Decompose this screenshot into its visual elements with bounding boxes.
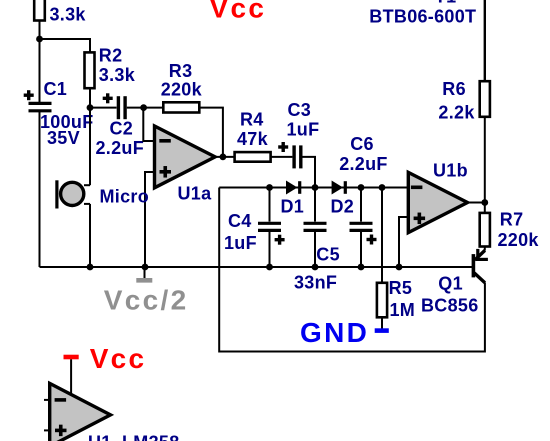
svg-text:C5: C5 — [316, 245, 340, 265]
svg-text:R4: R4 — [240, 110, 264, 130]
capacitor C3 — [294, 145, 301, 168]
op-amp U1 (LM358 legend) — [44, 359, 111, 441]
svg-text:U1: U1 — [88, 432, 112, 441]
node C3/D1/D2 junction — [312, 184, 319, 191]
svg-text:D2: D2 — [331, 197, 355, 217]
wire R2 bottom to C2 node — [89, 88, 91, 107]
svg-text:2.2uF: 2.2uF — [96, 138, 145, 158]
svg-text:U1a: U1a — [178, 183, 213, 203]
wire C2 to R3 node — [127, 107, 164, 109]
wire R3 right feedback down — [199, 108, 223, 157]
node C4 bottom junction — [266, 264, 273, 271]
resistor R7 — [480, 213, 490, 247]
wire U1b output — [468, 202, 485, 204]
power symbol Vcc (red bar) — [64, 355, 79, 360]
svg-text:Vcc: Vcc — [90, 343, 147, 374]
node R3 left junction — [140, 104, 147, 111]
svg-text:1uF: 1uF — [287, 120, 320, 140]
diode D2 — [332, 181, 346, 195]
node C6 bottom junction — [358, 264, 365, 271]
resistor R3 — [163, 102, 199, 112]
svg-text:BTB06-600T: BTB06-600T — [369, 7, 476, 27]
wire C3 down to detector rail — [303, 157, 316, 188]
resistor R4 — [235, 152, 271, 162]
node Vcc/2 junction — [142, 264, 149, 271]
plus sign C2 — [103, 93, 113, 103]
svg-text:220k: 220k — [161, 80, 203, 100]
resistor R2 — [85, 52, 95, 88]
svg-text:R3: R3 — [169, 61, 193, 81]
svg-text:47k: 47k — [237, 129, 269, 149]
diode D1 — [286, 181, 300, 195]
svg-text:R7: R7 — [500, 210, 524, 230]
wire left rail upper — [39, 20, 41, 103]
svg-text:R2: R2 — [99, 46, 123, 66]
node R5 top junction — [379, 184, 386, 191]
svg-text:C4: C4 — [228, 211, 252, 231]
ground symbol GND bar — [375, 328, 389, 333]
svg-text:3.3k: 3.3k — [50, 4, 87, 24]
plus sign C4 — [275, 235, 285, 245]
node mic bottom junction — [87, 264, 94, 271]
node C2 left junction — [87, 104, 94, 111]
svg-text:R5: R5 — [389, 278, 413, 298]
transistor Q1 — [473, 247, 488, 283]
wire right rail top — [484, 0, 486, 81]
svg-text:1uF: 1uF — [224, 233, 257, 253]
resistor R5 — [377, 188, 387, 330]
node U1b output junction — [481, 199, 488, 206]
svg-text:Vcc: Vcc — [210, 0, 267, 24]
svg-text:Q1: Q1 — [438, 274, 463, 294]
svg-text:C2: C2 — [110, 119, 134, 139]
svg-text:R6: R6 — [442, 79, 466, 99]
wire R4 to C3 — [271, 156, 293, 158]
capacitor C1 — [29, 103, 52, 110]
resistor R6 — [480, 81, 490, 117]
svg-text:Vcc/2: Vcc/2 — [104, 285, 189, 316]
wire node to C2 — [90, 107, 117, 109]
node C6 top junction — [358, 184, 365, 191]
capacitor C6 — [350, 188, 373, 268]
node U1b plus junction — [396, 264, 403, 271]
svg-text:C1: C1 — [44, 79, 68, 99]
microphone Micro — [57, 108, 90, 267]
resistor R1 — [34, 0, 45, 21]
svg-text:33nF: 33nF — [294, 272, 337, 292]
capacitor C2 — [118, 96, 125, 119]
svg-text:D1: D1 — [281, 197, 305, 217]
plus sign C1 — [24, 90, 34, 100]
wire left rail lower — [39, 111, 41, 267]
svg-text:C3: C3 — [288, 100, 312, 120]
svg-text:U1b: U1b — [433, 161, 468, 181]
wire U1a noninverting input from rail — [145, 172, 155, 267]
node U1a output junction — [220, 154, 227, 161]
wire U1b noninverting input — [399, 217, 408, 267]
node junction at R1 bottom — [36, 36, 43, 43]
wire latch box (left and bottom) — [219, 188, 485, 352]
svg-text:35V: 35V — [47, 128, 80, 148]
svg-text:GND: GND — [300, 317, 369, 348]
op-amp U1b — [408, 172, 467, 232]
power symbol Vcc/2 — [136, 267, 152, 280]
svg-text:2.2uF: 2.2uF — [339, 154, 388, 174]
svg-text:220k: 220k — [498, 230, 540, 250]
svg-text:LM358: LM358 — [122, 432, 180, 441]
plus sign C3 — [278, 142, 288, 152]
wire right rail mid — [484, 117, 486, 213]
svg-text:Micro: Micro — [100, 186, 150, 206]
svg-text:2.2k: 2.2k — [438, 102, 475, 122]
wire to U1a inverting input — [143, 108, 154, 141]
node C5 bottom junction — [312, 264, 319, 271]
wire detector top rail — [219, 187, 408, 189]
node C4 top junction — [266, 184, 273, 191]
svg-text:3.3k: 3.3k — [99, 65, 136, 85]
wire bottom Vcc/2 rail — [40, 266, 473, 268]
capacitor C5 — [304, 188, 327, 268]
svg-text:BC856: BC856 — [421, 295, 479, 315]
wire U1a output to R4 — [215, 156, 235, 158]
wire top horizontal to R2 — [40, 39, 91, 52]
svg-text:C6: C6 — [350, 134, 374, 154]
capacitor C4 — [258, 188, 281, 268]
op-amp U1a — [155, 126, 216, 188]
plus sign C6 — [367, 235, 377, 245]
svg-text:1M: 1M — [390, 300, 416, 320]
